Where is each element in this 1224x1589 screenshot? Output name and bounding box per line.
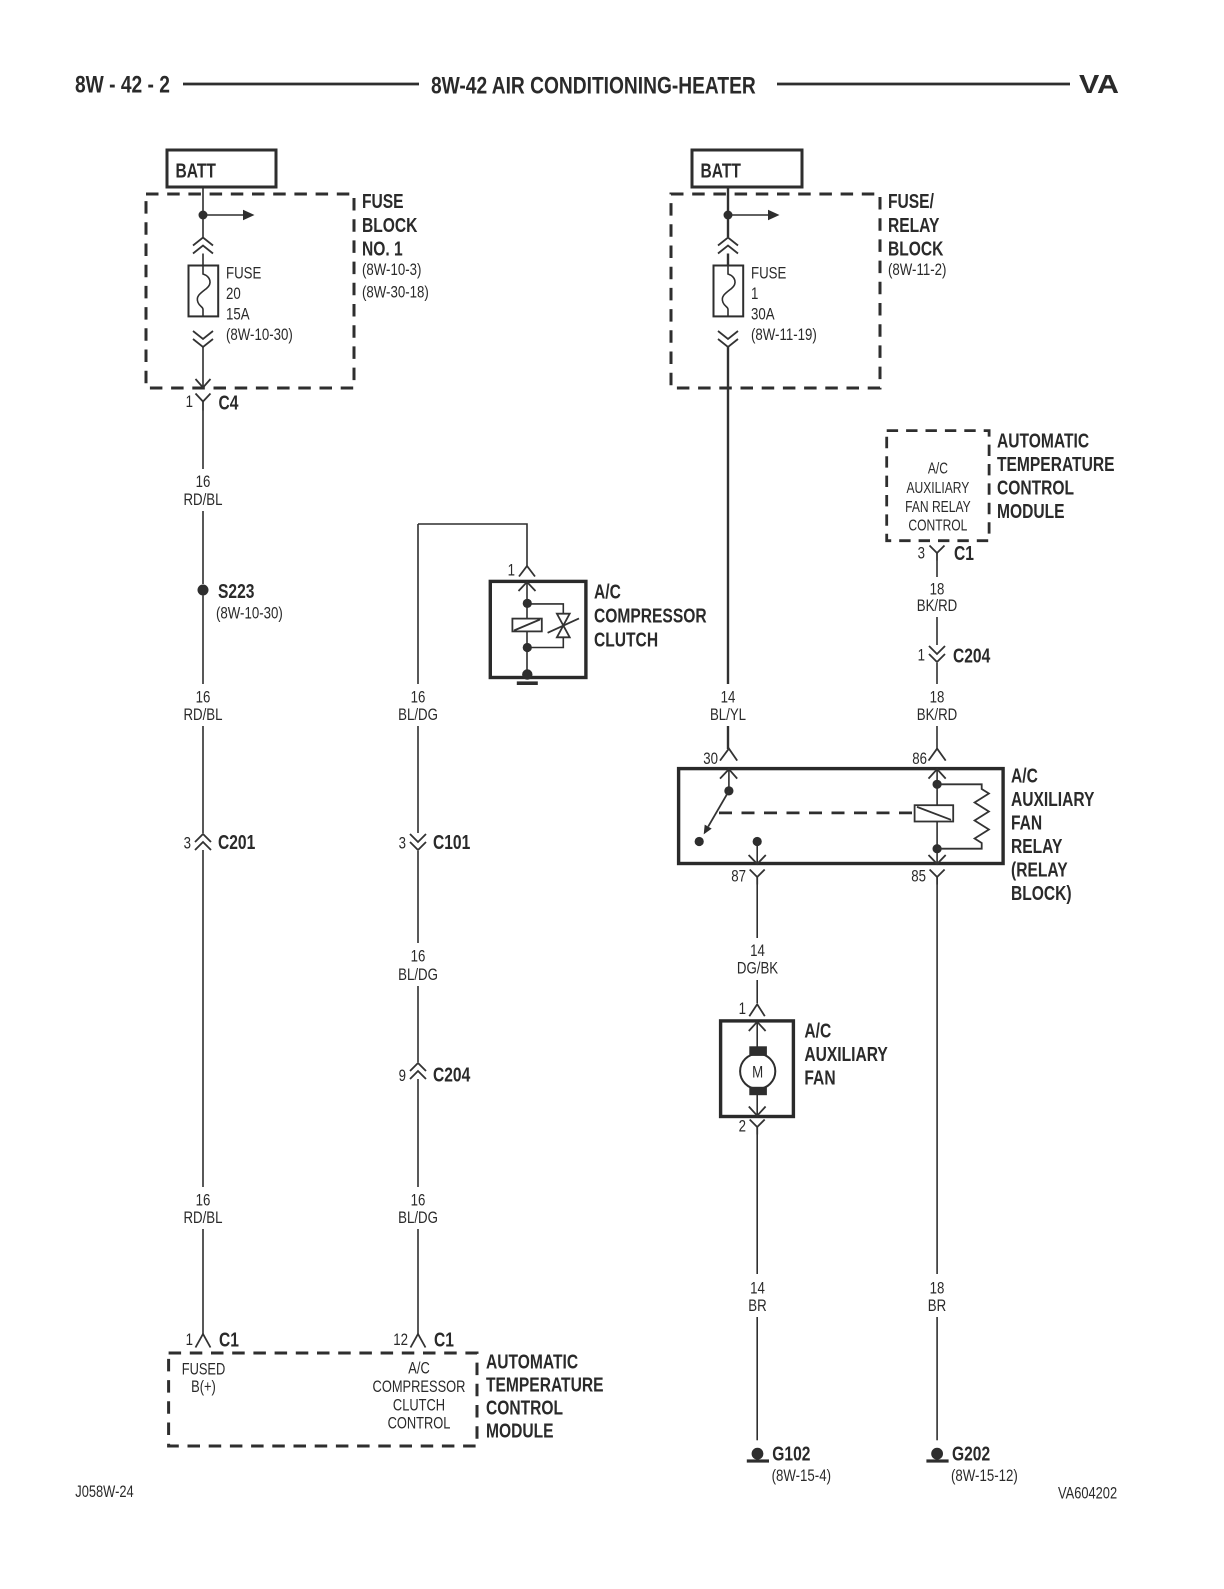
- inline connector chevrons (up) above fuse: [718, 238, 738, 246]
- wire: [756, 980, 758, 1003]
- svg-text:BATT: BATT: [701, 160, 741, 182]
- svg-text:C1: C1: [434, 1328, 454, 1350]
- svg-text:AUTOMATIC: AUTOMATIC: [486, 1351, 578, 1373]
- battery feed box BATT (right): [692, 150, 802, 187]
- svg-text:CLUTCH: CLUTCH: [594, 629, 658, 651]
- svg-text:M: M: [752, 1063, 763, 1082]
- wire BATT to junction: [727, 187, 729, 237]
- svg-text:(8W-15-12): (8W-15-12): [951, 1466, 1018, 1485]
- relay coil: [915, 805, 954, 821]
- svg-text:1: 1: [186, 392, 193, 411]
- svg-text:VA604202: VA604202: [1058, 1485, 1117, 1503]
- svg-text:CONTROL: CONTROL: [486, 1397, 563, 1419]
- svg-text:BL/DG: BL/DG: [398, 1209, 438, 1228]
- fixed contact node (NC side): [695, 837, 704, 846]
- automatic temperature control module dashed outline (top): [887, 431, 989, 541]
- wire from mid column up to clutch: [418, 524, 527, 566]
- connector C1 pin 1 at module: [196, 1334, 211, 1348]
- wire from motor: [756, 1095, 758, 1115]
- svg-text:16: 16: [196, 473, 211, 492]
- motor body: [740, 1054, 775, 1089]
- wire pin 87 down: [756, 885, 758, 939]
- svg-text:14: 14: [721, 688, 736, 707]
- svg-text:A/C: A/C: [408, 1360, 430, 1378]
- switch blade with arrowhead: [708, 791, 729, 827]
- svg-text:FUSE: FUSE: [226, 264, 261, 283]
- wire branch to suppression diode: [527, 604, 563, 614]
- wire: [727, 726, 729, 749]
- svg-text:BLOCK: BLOCK: [362, 214, 417, 236]
- motor brush bottom: [749, 1087, 767, 1095]
- wire: [756, 1317, 758, 1440]
- inline connector chevrons (down) below fuse: [193, 331, 213, 339]
- svg-text:C1: C1: [954, 542, 974, 564]
- resistor parallel to coil: [937, 784, 989, 848]
- svg-text:BL/DG: BL/DG: [398, 706, 438, 725]
- svg-text:MODULE: MODULE: [997, 500, 1065, 522]
- svg-text:3: 3: [918, 544, 925, 563]
- case ground node: [522, 669, 532, 679]
- svg-text:14: 14: [750, 942, 765, 961]
- svg-text:30: 30: [703, 749, 718, 768]
- svg-text:BK/RD: BK/RD: [917, 706, 957, 725]
- svg-text:(RELAY: (RELAY: [1011, 859, 1068, 881]
- fuse 1 element: [714, 266, 744, 317]
- coil top node: [933, 780, 942, 789]
- wire to fuse: [202, 254, 204, 266]
- automatic temperature control module dashed outline (bottom): [169, 1353, 477, 1446]
- svg-text:G202: G202: [952, 1443, 990, 1465]
- ground bar: [517, 681, 538, 685]
- svg-text:BLOCK: BLOCK: [888, 238, 943, 260]
- svg-text:AUTOMATIC: AUTOMATIC: [997, 430, 1089, 452]
- svg-text:85: 85: [911, 867, 926, 886]
- svg-text:A/C: A/C: [928, 459, 948, 477]
- a/c compressor clutch box: [490, 581, 586, 677]
- a/c auxiliary fan box: [721, 1021, 794, 1117]
- wire: [202, 511, 204, 584]
- svg-text:1: 1: [508, 561, 515, 580]
- svg-text:COMPRESSOR: COMPRESSOR: [594, 605, 707, 627]
- connector C204 pin 1: [929, 646, 945, 654]
- wire: [936, 1317, 938, 1440]
- wire fuse block to relay pin 30: [727, 347, 729, 684]
- svg-text:FUSE: FUSE: [751, 264, 786, 283]
- wire pin30 to switch node: [728, 769, 730, 791]
- junction node: [199, 211, 208, 220]
- wire C4 down: [202, 411, 204, 470]
- fuse/relay block dashed outline: [671, 194, 880, 388]
- junction node: [724, 211, 733, 220]
- wire: [417, 1229, 419, 1334]
- svg-text:FUSED: FUSED: [182, 1361, 226, 1379]
- wire pin86 to coil: [936, 769, 938, 805]
- svg-text:FAN RELAY: FAN RELAY: [905, 497, 971, 515]
- svg-text:(8W-11-19): (8W-11-19): [751, 326, 817, 345]
- svg-text:BATT: BATT: [176, 160, 216, 182]
- wire: [417, 1079, 419, 1187]
- svg-text:DG/BK: DG/BK: [737, 959, 778, 978]
- terminal arrow inside pin 87: [749, 855, 766, 864]
- svg-text:FAN: FAN: [1011, 812, 1042, 834]
- svg-text:B(+): B(+): [191, 1379, 216, 1397]
- fuse block no.1 dashed outline: [146, 194, 354, 388]
- svg-text:12: 12: [393, 1331, 408, 1350]
- svg-text:1: 1: [739, 999, 746, 1018]
- wire: [936, 561, 938, 578]
- branch arrow to other circuits: [203, 214, 243, 216]
- svg-text:RELAY: RELAY: [888, 214, 939, 236]
- svg-text:BR: BR: [928, 1297, 946, 1316]
- wire: [202, 850, 204, 1187]
- svg-text:VA: VA: [1079, 69, 1119, 99]
- svg-text:BL/DG: BL/DG: [398, 966, 438, 985]
- svg-text:MODULE: MODULE: [486, 1420, 554, 1442]
- svg-text:NO. 1: NO. 1: [362, 238, 403, 260]
- node: [523, 599, 532, 608]
- terminal arrow inside pin 86: [929, 769, 946, 778]
- svg-text:16: 16: [411, 1191, 426, 1210]
- svg-text:BL/YL: BL/YL: [710, 706, 746, 725]
- actuating dashed link: [719, 812, 915, 815]
- svg-text:16: 16: [411, 947, 426, 966]
- wire fan to ground: [756, 1135, 758, 1275]
- header rule right: [777, 83, 1070, 86]
- svg-text:BK/RD: BK/RD: [917, 597, 957, 616]
- svg-text:CONTROL: CONTROL: [908, 516, 967, 534]
- svg-text:AUXILIARY: AUXILIARY: [804, 1043, 887, 1065]
- svg-text:A/C: A/C: [804, 1020, 831, 1042]
- svg-text:CONTROL: CONTROL: [388, 1415, 451, 1433]
- svg-text:C101: C101: [433, 831, 470, 853]
- wire: [936, 617, 938, 645]
- svg-text:(8W-10-30): (8W-10-30): [216, 604, 283, 623]
- svg-text:18: 18: [930, 1279, 945, 1298]
- svg-text:J058W-24: J058W-24: [75, 1484, 133, 1502]
- wire: [202, 726, 204, 833]
- svg-text:FAN: FAN: [804, 1067, 835, 1089]
- svg-text:16: 16: [196, 688, 211, 707]
- terminal arrow inside fan top: [749, 1022, 766, 1031]
- battery feed box BATT (left): [167, 150, 276, 187]
- terminal arrow inside clutch top: [519, 582, 536, 591]
- wire: [202, 1229, 204, 1334]
- svg-text:C1: C1: [219, 1328, 239, 1350]
- wire: [936, 663, 938, 684]
- wire: [202, 596, 204, 685]
- svg-text:16: 16: [196, 1191, 211, 1210]
- terminal arrow inside fan bottom: [749, 1107, 766, 1116]
- connector C201 pin 3: [195, 834, 211, 842]
- wire pin 85 to ground: [936, 885, 938, 1275]
- svg-text:FUSE: FUSE: [362, 190, 404, 212]
- svg-text:AUXILIARY: AUXILIARY: [1011, 788, 1094, 810]
- svg-text:9: 9: [399, 1067, 406, 1086]
- wire fuse to block edge: [202, 347, 204, 387]
- wire pin87 contact down: [756, 842, 758, 864]
- wire inside clutch: [526, 582, 528, 619]
- svg-text:87: 87: [731, 867, 746, 886]
- node: [523, 643, 532, 652]
- connector C1 pin 12 at module: [411, 1334, 426, 1348]
- svg-text:RD/BL: RD/BL: [183, 490, 222, 509]
- svg-text:(8W-10-3): (8W-10-3): [362, 260, 421, 279]
- svg-text:2: 2: [739, 1117, 746, 1136]
- svg-text:(8W-15-4): (8W-15-4): [772, 1466, 831, 1485]
- svg-text:S223: S223: [218, 580, 254, 602]
- svg-text:20: 20: [226, 285, 241, 304]
- svg-text:1: 1: [751, 285, 758, 304]
- svg-text:RELAY: RELAY: [1011, 835, 1062, 857]
- svg-text:C204: C204: [433, 1064, 470, 1086]
- header rule left: [183, 83, 419, 86]
- svg-text:TEMPERATURE: TEMPERATURE: [997, 453, 1115, 475]
- svg-text:8W - 42 - 2: 8W - 42 - 2: [75, 71, 170, 99]
- wire to fuse: [727, 254, 729, 266]
- svg-text:C4: C4: [219, 391, 239, 413]
- connector C204 pin 9: [410, 1063, 426, 1071]
- suppression diode (bidirectional): [557, 614, 570, 626]
- svg-text:BLOCK): BLOCK): [1011, 882, 1072, 904]
- terminal arrow inside pin 30: [720, 769, 737, 778]
- terminal arrow inside pin 85: [929, 855, 946, 864]
- svg-text:COMPRESSOR: COMPRESSOR: [373, 1379, 466, 1397]
- svg-text:BR: BR: [748, 1297, 766, 1316]
- wire: [417, 726, 419, 833]
- wire mid column down: [417, 524, 419, 684]
- svg-text:A/C: A/C: [1011, 765, 1038, 787]
- svg-text:86: 86: [912, 749, 927, 768]
- svg-text:15A: 15A: [226, 305, 250, 324]
- svg-text:C204: C204: [953, 644, 990, 666]
- svg-text:TEMPERATURE: TEMPERATURE: [486, 1374, 604, 1396]
- svg-text:C201: C201: [218, 831, 255, 853]
- coil bottom node: [933, 844, 942, 853]
- connector C101 pin 3: [410, 834, 426, 842]
- motor brush top: [749, 1046, 767, 1056]
- svg-text:1: 1: [918, 646, 925, 665]
- svg-text:8W-42 AIR CONDITIONING-HEATER: 8W-42 AIR CONDITIONING-HEATER: [431, 71, 756, 99]
- svg-text:AUXILIARY: AUXILIARY: [906, 478, 969, 496]
- a/c auxiliary fan relay box: [679, 769, 1004, 864]
- svg-text:RD/BL: RD/BL: [183, 706, 222, 725]
- svg-text:3: 3: [399, 834, 406, 853]
- inline connector chevrons (up) above fuse: [193, 238, 213, 246]
- svg-text:16: 16: [411, 688, 426, 707]
- clutch coil: [512, 619, 541, 632]
- wire diode return: [527, 637, 563, 647]
- svg-text:RD/BL: RD/BL: [183, 1209, 222, 1228]
- svg-text:CONTROL: CONTROL: [997, 477, 1074, 499]
- svg-text:A/C: A/C: [594, 581, 621, 603]
- branch arrow to other circuits: [728, 214, 768, 216]
- svg-text:FUSE/: FUSE/: [888, 190, 934, 212]
- switch common node: [724, 786, 733, 795]
- svg-text:3: 3: [184, 834, 191, 853]
- svg-text:18: 18: [930, 688, 945, 707]
- wire: [417, 986, 419, 1062]
- inline connector chevrons (down) below fuse: [718, 331, 738, 339]
- svg-text:(8W-11-2): (8W-11-2): [888, 260, 946, 279]
- svg-text:30A: 30A: [751, 305, 775, 324]
- contact node pin 87: [753, 837, 762, 846]
- svg-text:(8W-10-30): (8W-10-30): [226, 326, 293, 345]
- wire: [936, 726, 938, 749]
- svg-text:14: 14: [750, 1279, 765, 1298]
- wire: [417, 851, 419, 943]
- svg-text:G102: G102: [772, 1443, 810, 1465]
- ground G102: [752, 1448, 764, 1460]
- wire BATT to junction: [202, 187, 204, 237]
- wire to motor: [756, 1022, 758, 1047]
- arrow at block exit: [196, 379, 211, 388]
- fuse 20 element: [189, 266, 219, 317]
- ground G202: [931, 1448, 943, 1460]
- splice S223: [198, 585, 209, 596]
- svg-text:CLUTCH: CLUTCH: [393, 1397, 445, 1415]
- svg-text:1: 1: [186, 1331, 193, 1350]
- svg-text:(8W-30-18): (8W-30-18): [362, 283, 429, 302]
